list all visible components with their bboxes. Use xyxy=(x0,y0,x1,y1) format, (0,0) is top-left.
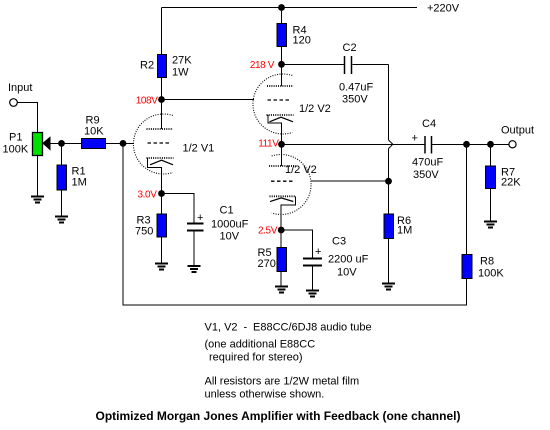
tube V2 lower cathode lead xyxy=(281,196,295,230)
tube V2 lower cathode bar xyxy=(270,195,297,197)
node 218V dot xyxy=(278,61,285,68)
wire R3 to ground xyxy=(161,237,163,264)
net label 218V xyxy=(250,60,275,71)
ground C3 xyxy=(306,291,319,297)
wire P1 bottom to ground xyxy=(37,156,39,197)
node R1 junction dot xyxy=(58,140,65,147)
tube V2 upper cathode bar xyxy=(267,114,294,116)
ground R3 xyxy=(155,264,168,270)
svg-text:750: 750 xyxy=(135,226,153,238)
op tube V2 upper envelope xyxy=(253,74,292,134)
value 27K 1W xyxy=(172,55,192,79)
svg-text:100K: 100K xyxy=(478,268,504,280)
tube V2 lower grid xyxy=(271,180,295,182)
label C4 xyxy=(422,118,436,130)
node feedback junction dot xyxy=(120,140,127,147)
tube V2 lower envelope xyxy=(272,155,311,215)
wire input to P1 xyxy=(18,103,38,133)
wire C2 right to corner down xyxy=(353,64,389,140)
svg-text:C2: C2 xyxy=(343,42,357,54)
svg-text:0.47uF: 0.47uF xyxy=(339,82,374,94)
note resistors text xyxy=(205,376,360,401)
ground R5 xyxy=(275,287,288,293)
svg-text:P1: P1 xyxy=(9,132,22,144)
wire wiper to R9 xyxy=(50,142,82,144)
title xyxy=(96,409,461,423)
svg-text:Output: Output xyxy=(501,125,534,137)
net label +220V xyxy=(427,3,460,15)
ground R7 xyxy=(484,222,497,228)
resistor R3 xyxy=(157,214,167,237)
svg-text:1M: 1M xyxy=(397,225,412,237)
ground R6 xyxy=(382,284,395,290)
note tubes text xyxy=(205,322,372,364)
svg-text:V1, V2: V1, V2 xyxy=(205,322,238,334)
svg-text:111V: 111V xyxy=(258,139,279,150)
tube V1 envelope xyxy=(133,114,172,174)
label R6 value 1M xyxy=(397,215,412,237)
wire hop over 111V wire xyxy=(389,140,393,149)
svg-text:E88CC/6DJ8 audio tube: E88CC/6DJ8 audio tube xyxy=(253,322,372,334)
wire R4 to 218V node xyxy=(281,47,283,65)
resistor R4 xyxy=(277,24,287,47)
svg-text:10V: 10V xyxy=(337,267,357,279)
svg-text:22K: 22K xyxy=(501,177,521,189)
node junction rail/R4 dot xyxy=(278,4,285,11)
value 0.47uF 350V xyxy=(339,82,374,106)
svg-text:2200 uF: 2200 uF xyxy=(328,254,369,266)
svg-text:470uF: 470uF xyxy=(412,157,443,169)
label P1 value 100K xyxy=(3,132,29,156)
capacitor C4 xyxy=(425,136,432,154)
terminal Output xyxy=(509,141,516,148)
capacitor C3 xyxy=(303,259,322,266)
wire R7 branch xyxy=(490,144,492,166)
svg-text:350V: 350V xyxy=(413,169,439,181)
wire R8 branch from output node xyxy=(466,144,468,254)
terminal Input xyxy=(10,99,18,107)
net label 3.0V xyxy=(138,190,158,201)
value 470uF 350V xyxy=(412,157,443,182)
label C1 value xyxy=(211,205,249,243)
label R5 value 270 xyxy=(258,247,276,270)
tube V2 upper cathode chevron xyxy=(270,117,294,122)
svg-text:+: + xyxy=(412,133,418,145)
polarity + C4 xyxy=(412,133,418,145)
svg-text:100K: 100K xyxy=(3,144,29,156)
node 2.5V dot xyxy=(278,227,285,234)
svg-text:unless otherwise shown.: unless otherwise shown. xyxy=(205,389,325,401)
svg-text:1/2 V2: 1/2 V2 xyxy=(299,103,331,115)
wire V2 lower grid to junction xyxy=(311,180,389,182)
label R9 value 10K xyxy=(84,115,104,138)
tube V1 cathode lead xyxy=(148,158,162,194)
tube V1 plate lead xyxy=(161,100,163,130)
wire R9 to V1 grid xyxy=(106,142,135,144)
svg-text:+: + xyxy=(197,212,203,224)
wire junction to R6 xyxy=(388,181,390,214)
svg-text:C4: C4 xyxy=(422,118,436,130)
svg-text:120: 120 xyxy=(293,35,311,47)
polarity + C3 xyxy=(315,246,321,258)
tube V2 lower plate lead xyxy=(281,144,283,166)
resistor R1 xyxy=(57,165,67,190)
label 1/2 V2 upper xyxy=(299,103,331,115)
svg-text:1/2 V1: 1/2 V1 xyxy=(183,143,215,155)
tube V2 lower cathode chevron xyxy=(270,198,293,202)
wire 3.0V to C1 xyxy=(162,194,195,223)
svg-text:-: - xyxy=(244,322,248,334)
node 3.0V dot xyxy=(158,190,165,197)
label C2 xyxy=(343,42,357,54)
svg-text:1W: 1W xyxy=(172,67,189,79)
potentiometer P1 xyxy=(33,133,43,156)
label C3 value xyxy=(328,236,369,279)
wire R7 to ground xyxy=(490,189,492,222)
svg-text:R2: R2 xyxy=(140,60,154,72)
svg-text:350V: 350V xyxy=(342,94,368,106)
wire R2 branch from rail to 108V node xyxy=(161,8,163,100)
svg-text:10K: 10K xyxy=(84,126,104,138)
resistor R2 xyxy=(158,55,167,78)
ground R1 xyxy=(55,217,68,223)
wire R1 to ground xyxy=(61,190,63,217)
label Output xyxy=(501,125,534,137)
resistor R6 xyxy=(384,214,394,239)
svg-text:1M: 1M xyxy=(72,177,87,189)
wire hop bottom to grid junction xyxy=(388,149,390,182)
wire C3 to ground xyxy=(312,266,314,291)
node R7 junction dot xyxy=(487,141,494,148)
svg-text:C3: C3 xyxy=(332,236,346,248)
node R8 junction dot xyxy=(463,141,470,148)
resistor R8 xyxy=(462,255,472,279)
svg-text:27K: 27K xyxy=(172,55,192,67)
net label 108V xyxy=(136,96,158,107)
label 1/2 V2 lower xyxy=(285,164,317,176)
label 1/2 V1 xyxy=(183,143,215,155)
capacitor C1 xyxy=(187,224,204,231)
potentiometer P1 wiper arrow xyxy=(43,137,50,149)
svg-text:Optimized Morgan Jones Amplifi: Optimized Morgan Jones Amplifier with Fe… xyxy=(96,409,461,423)
svg-text:required for stereo): required for stereo) xyxy=(209,352,303,364)
wire 3.0V to R3 xyxy=(161,194,163,215)
tube V2 upper plate lead xyxy=(281,64,283,86)
svg-text:3.0V: 3.0V xyxy=(138,190,158,201)
svg-text:C1: C1 xyxy=(220,205,234,217)
wire 108V node to V2 upper grid xyxy=(162,99,255,101)
label R3 value 750 xyxy=(135,215,153,238)
wire top +220V rail xyxy=(162,7,418,9)
svg-text:R8: R8 xyxy=(480,256,494,268)
tube V1 grid xyxy=(148,142,172,144)
label R7 value 22K xyxy=(501,167,521,189)
node grid/R6 junction dot xyxy=(385,178,392,185)
label R2 xyxy=(140,60,154,72)
svg-text:1000uF: 1000uF xyxy=(211,219,249,231)
resistor R9 xyxy=(82,139,106,149)
label R1 value 1M xyxy=(72,166,87,189)
wire R6 to ground xyxy=(388,239,390,284)
wire 111V node to C4 xyxy=(282,143,426,145)
tube V1 cathode bar xyxy=(147,157,174,159)
tube V2 upper cathode lead xyxy=(268,115,282,144)
svg-text:108V: 108V xyxy=(136,96,158,107)
node 108V dot xyxy=(158,96,165,103)
tube V2 upper grid xyxy=(268,99,292,101)
svg-text:10V: 10V xyxy=(220,231,240,243)
wire rail to R4 xyxy=(281,8,283,24)
ground P1 xyxy=(31,197,44,203)
wire R1 branch xyxy=(61,143,63,165)
label Input xyxy=(8,82,32,94)
svg-text:+: + xyxy=(315,246,321,258)
tube V1 cathode chevron xyxy=(150,160,173,165)
svg-text:1/2 V2: 1/2 V2 xyxy=(285,164,317,176)
svg-text:+220V: +220V xyxy=(427,3,460,15)
tube V2 upper plate bar xyxy=(267,85,294,87)
wire C1 to ground xyxy=(193,231,195,267)
wire 218V node to C2 xyxy=(282,63,345,65)
svg-text:Input: Input xyxy=(8,82,32,94)
label R4 value 120 xyxy=(293,25,311,47)
polarity + C1 xyxy=(197,212,203,224)
wire C4 to output xyxy=(432,143,509,145)
net label 111V xyxy=(258,139,279,150)
wire 2.5V to C3 xyxy=(281,230,312,258)
svg-text:(one additional E88CC: (one additional E88CC xyxy=(205,339,316,351)
capacitor C2 xyxy=(345,56,352,74)
resistor R7 xyxy=(486,166,496,189)
wire feedback R8 down and left to V1 grid xyxy=(123,143,467,305)
label R8 value 100K xyxy=(478,256,504,280)
wire R5 to ground xyxy=(280,272,282,287)
net label 2.5V xyxy=(258,226,278,237)
svg-text:218 V: 218 V xyxy=(250,60,275,71)
svg-text:All resistors are 1/2W metal f: All resistors are 1/2W metal film xyxy=(205,376,360,388)
svg-text:2.5V: 2.5V xyxy=(258,226,278,237)
tube V1 plate bar xyxy=(147,128,174,130)
resistor R5 xyxy=(277,248,287,272)
wire 2.5V to R5 xyxy=(280,230,282,248)
ground C1 xyxy=(188,266,201,272)
node 111V dot xyxy=(278,141,285,148)
tube V2 lower plate bar xyxy=(269,165,296,167)
svg-text:270: 270 xyxy=(258,258,276,270)
